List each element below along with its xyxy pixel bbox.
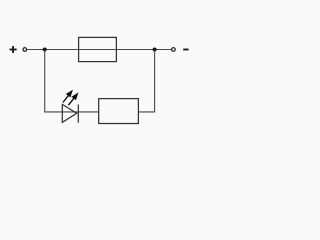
fuse F1 (79, 37, 117, 61)
node junction left (43, 48, 47, 52)
LED light emission arrow 1 (63, 90, 73, 103)
resistor R1 (series box) (99, 99, 139, 124)
wire top rail (27, 49, 172, 51)
terminal left (+) (23, 48, 27, 52)
wire left drop to lower branch (45, 50, 99, 112)
LED light emission arrow 2 (68, 92, 78, 105)
LED D1 (62, 104, 78, 122)
plus polarity symbol (10, 46, 17, 53)
wire resistor to right rail (138, 50, 154, 112)
minus polarity symbol (183, 49, 188, 51)
terminal right (-) (172, 48, 176, 52)
node junction right (153, 48, 157, 52)
